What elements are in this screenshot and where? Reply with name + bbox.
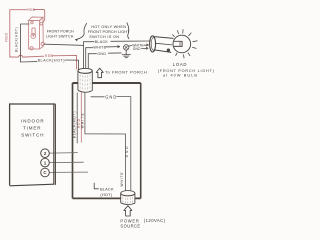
svg-text:TIMER: TIMER: [23, 126, 42, 131]
svg-text:BLACK(HOT): BLACK(HOT): [72, 111, 76, 138]
svg-text:GND: GND: [133, 47, 141, 51]
svg-text:WHITE: WHITE: [93, 45, 106, 49]
svg-text:HOT ONLY WHEN: HOT ONLY WHEN: [91, 25, 126, 29]
svg-text:FRONT PORCH LIGHT: FRONT PORCH LIGHT: [88, 30, 130, 34]
svg-text:To FRONT PORCH: To FRONT PORCH: [105, 70, 147, 75]
svg-text:GND: GND: [125, 145, 129, 158]
svg-text:WHITE: WHITE: [120, 172, 124, 187]
svg-text:(FRONT PORCH LIGHT): (FRONT PORCH LIGHT): [158, 69, 215, 73]
svg-text:SWITCH: SWITCH: [21, 133, 44, 138]
svg-text:SOURCE: SOURCE: [120, 224, 140, 229]
svg-text:WHITE: WHITE: [81, 112, 85, 128]
svg-text:GND: GND: [105, 94, 117, 99]
svg-text:BLACK(HOT): BLACK(HOT): [38, 58, 65, 62]
svg-text:(HOT): (HOT): [100, 192, 112, 197]
svg-text:BLACK(HOT): BLACK(HOT): [14, 27, 18, 52]
svg-text:SWITCH IS ON: SWITCH IS ON: [89, 35, 119, 39]
svg-text:LOAD: LOAD: [173, 62, 188, 67]
svg-text:INDOOR: INDOOR: [21, 119, 44, 124]
svg-text:FRONT PORCH: FRONT PORCH: [47, 29, 74, 33]
svg-text:1: 1: [44, 160, 47, 165]
svg-text:RED: RED: [4, 32, 8, 41]
svg-text:(120VAC): (120VAC): [144, 218, 166, 223]
svg-text:BLACK: BLACK: [95, 40, 109, 44]
svg-text:BLACK: BLACK: [100, 186, 114, 191]
svg-text:2: 2: [44, 151, 47, 156]
svg-text:RED: RED: [27, 8, 35, 12]
svg-text:GND: GND: [97, 52, 106, 56]
svg-text:LIGHT SWITCH: LIGHT SWITCH: [46, 35, 74, 39]
svg-text:at 40W BULB: at 40W BULB: [163, 73, 198, 77]
